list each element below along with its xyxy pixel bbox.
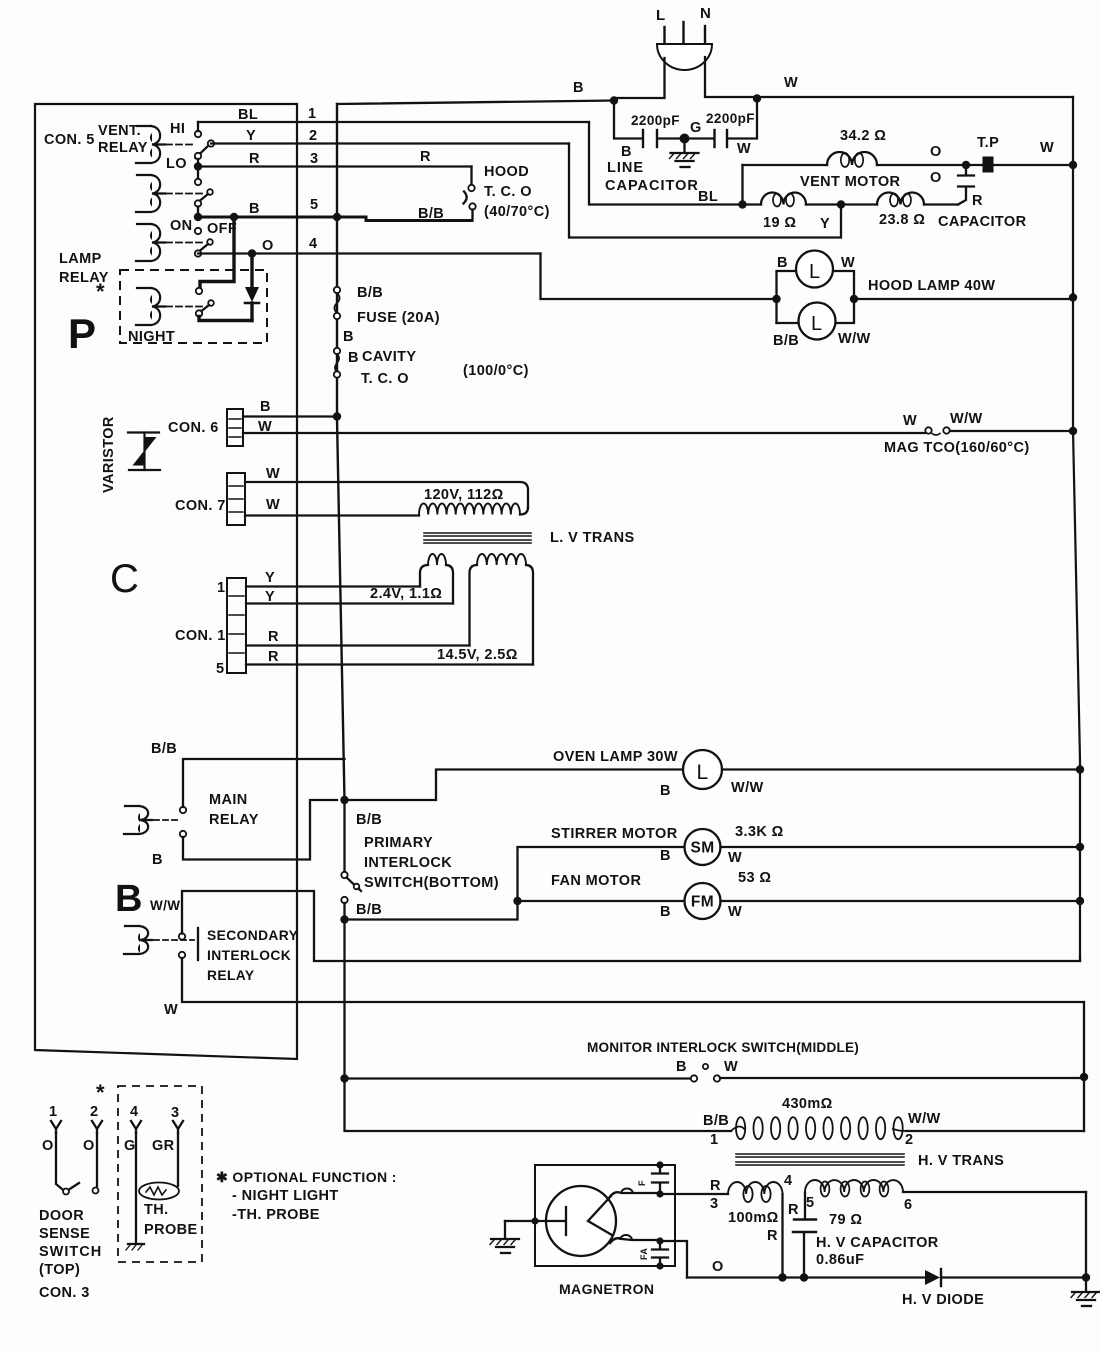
vent motor lower branch wire <box>743 203 959 205</box>
label 0.86uF <box>816 1252 864 1268</box>
svg-text:*: * <box>96 1080 105 1105</box>
svg-text:B: B <box>348 350 359 366</box>
svg-text:4: 4 <box>130 1104 138 1120</box>
HV primary 430m <box>731 1117 906 1139</box>
wire sw2 to B node <box>197 207 199 218</box>
svg-text:PROBE: PROBE <box>144 1222 198 1238</box>
label MAGNETRON <box>559 1281 654 1297</box>
svg-text:- NIGHT LIGHT: - NIGHT LIGHT <box>232 1188 339 1204</box>
label 120V 112 <box>424 487 504 503</box>
svg-text:W: W <box>266 497 280 513</box>
label W/W secondary <box>150 898 180 913</box>
label W/W oven <box>731 780 764 796</box>
label VENT. RELAY <box>98 123 148 156</box>
wire cap right up <box>728 100 757 139</box>
contact pivot LO <box>166 153 201 172</box>
svg-text:VENT MOTOR: VENT MOTOR <box>800 174 901 190</box>
vent motor node left <box>738 200 746 208</box>
magnetron filament top <box>609 1189 660 1199</box>
wire CON1 Y1 <box>246 570 420 587</box>
node CON6 B at bus <box>333 412 341 420</box>
svg-text:SECONDARY: SECONDARY <box>207 928 298 943</box>
wire 430m right <box>906 1130 1084 1132</box>
wire plug right to W node <box>705 57 757 97</box>
wire pivot to R node <box>197 159 199 163</box>
svg-text:W: W <box>258 419 272 435</box>
node monitor right <box>1080 1073 1088 1081</box>
wire secondary top W/W <box>182 891 1080 961</box>
svg-text:R: R <box>268 649 279 665</box>
svg-text:Y: Y <box>246 128 256 144</box>
varistor symbol <box>128 433 160 471</box>
wire W to right bus <box>757 96 1073 98</box>
magnetron tube <box>546 1186 616 1256</box>
svg-text:CAVITY: CAVITY <box>362 349 417 365</box>
stirrer motor SM <box>685 829 721 865</box>
secondary relay coil <box>124 926 152 954</box>
svg-text:B: B <box>777 255 788 271</box>
wire line3 R <box>198 151 472 167</box>
svg-text:2: 2 <box>90 1104 98 1120</box>
label FAN MOTOR <box>551 873 641 889</box>
svg-text:W/W: W/W <box>150 898 180 913</box>
hood lamp L1 <box>796 251 833 288</box>
blade sw2 <box>200 189 213 201</box>
svg-text:SENSE: SENSE <box>39 1226 90 1242</box>
label HOOD LAMP 40W <box>868 278 995 294</box>
svg-text:GR: GR <box>152 1138 175 1154</box>
svg-text:W/W: W/W <box>908 1111 941 1127</box>
svg-text:HI: HI <box>170 121 185 137</box>
node stirrer bus <box>1076 843 1084 851</box>
node TP junction <box>962 161 970 169</box>
LV secondary 14.5V <box>470 554 534 665</box>
svg-text:FUSE (20A): FUSE (20A) <box>357 310 440 326</box>
wire R node down <box>197 167 199 180</box>
HV trans core <box>736 1154 904 1165</box>
label DOOR SENSE SWITCH <box>39 1208 102 1278</box>
label W top <box>784 75 798 91</box>
wire oven lamp right <box>722 768 1080 770</box>
night switch bottom contact <box>196 310 202 316</box>
label MONITOR INTERLOCK SWITCH <box>587 1040 859 1055</box>
node fan tee <box>513 897 521 905</box>
connector CON.6 <box>168 409 243 446</box>
magnetron filter box <box>535 1165 675 1266</box>
TH probe dashed box <box>118 1086 202 1262</box>
svg-text:R: R <box>710 1178 721 1194</box>
label ON <box>170 218 193 234</box>
label LINE CAPACITOR <box>605 160 699 194</box>
svg-text:1: 1 <box>710 1132 718 1148</box>
label STIRRER MOTOR <box>551 826 678 842</box>
primary interlock switch <box>341 800 361 920</box>
wire CON7 W bottom <box>245 497 419 516</box>
wire Y feeder <box>569 144 841 238</box>
main relay coil <box>124 806 152 834</box>
svg-text:3.3K Ω: 3.3K Ω <box>735 824 784 840</box>
HV capacitor <box>793 1220 816 1278</box>
svg-text:VENT.: VENT. <box>98 123 141 139</box>
svg-text:4: 4 <box>784 1173 792 1189</box>
ground TH probe <box>126 1244 144 1250</box>
svg-text:14.5V, 2.5Ω: 14.5V, 2.5Ω <box>437 647 518 663</box>
svg-text:W: W <box>728 850 742 866</box>
label R hood <box>420 149 431 165</box>
night dashed box <box>120 270 267 343</box>
node primary interlock bottom <box>340 915 348 923</box>
svg-text:INTERLOCK: INTERLOCK <box>364 855 452 871</box>
svg-text:O: O <box>712 1259 724 1275</box>
door pins labels <box>49 1104 179 1121</box>
svg-text:(100/0°C): (100/0°C) <box>463 363 529 379</box>
ground HV right <box>1071 1279 1100 1306</box>
vent motor winding 19 <box>761 193 806 207</box>
svg-text:B: B <box>660 904 671 920</box>
label B oven <box>660 783 671 799</box>
node HV right <box>1082 1273 1090 1281</box>
wire O feeder to hood lamp <box>541 254 777 300</box>
HV secondary winding 79 <box>805 1180 1086 1218</box>
wire line1 BL <box>198 106 589 123</box>
svg-text:NIGHT: NIGHT <box>128 329 175 345</box>
svg-text:L: L <box>811 313 823 335</box>
svg-text:2: 2 <box>905 1132 913 1148</box>
wire HV output <box>687 1276 1086 1278</box>
label R 3 <box>710 1178 721 1212</box>
svg-text:BL: BL <box>238 107 258 123</box>
wire mag tco right <box>950 430 1073 432</box>
svg-text:B: B <box>249 201 260 217</box>
svg-text:G: G <box>124 1138 136 1154</box>
svg-text:B: B <box>343 329 354 345</box>
svg-text:R: R <box>268 629 279 645</box>
svg-text:2: 2 <box>309 128 317 144</box>
big letter P <box>68 310 96 357</box>
fuse F1 20A <box>334 287 340 319</box>
svg-text:120V, 112Ω: 120V, 112Ω <box>424 487 504 503</box>
svg-text:W: W <box>737 141 751 157</box>
label R cap <box>788 1202 799 1218</box>
svg-text:B: B <box>660 783 671 799</box>
secondary relay contacts <box>179 928 198 960</box>
svg-text:53 Ω: 53 Ω <box>738 870 771 886</box>
label B main relay <box>152 852 163 868</box>
label B hood lamp <box>777 255 788 271</box>
svg-text:B/B: B/B <box>356 812 382 828</box>
wire line5 B <box>201 197 472 221</box>
svg-text:3: 3 <box>171 1105 179 1121</box>
HV diode <box>925 1269 941 1286</box>
label W vent <box>1040 140 1054 156</box>
HV filament winding 100m <box>728 1182 783 1278</box>
svg-text:23.8 Ω: 23.8 Ω <box>879 212 925 228</box>
svg-text:HOOD: HOOD <box>484 164 529 180</box>
svg-text:LO: LO <box>166 156 187 172</box>
wire hood lamp to bus <box>854 298 1073 300</box>
svg-text:RELAY: RELAY <box>209 812 259 828</box>
svg-text:R: R <box>420 149 431 165</box>
wire B node down <box>614 101 642 139</box>
svg-text:O: O <box>42 1138 54 1154</box>
wire B/B vertical lower <box>345 920 732 1132</box>
label O lower <box>930 170 942 186</box>
lamp relay coil K3 <box>136 224 165 261</box>
wire right bus <box>1073 97 1080 957</box>
vent motor winding 34.2 <box>827 152 877 167</box>
label B/B fuse <box>357 285 383 301</box>
label R vent <box>972 193 983 209</box>
svg-text:CON. 3: CON. 3 <box>39 1285 90 1301</box>
magnetron ground wire <box>505 1217 546 1224</box>
label B/B primary2 <box>356 902 382 918</box>
connector CON.1 <box>175 578 246 677</box>
label CON. 3 <box>39 1285 90 1301</box>
label 3.3K <box>735 824 784 840</box>
big letter B <box>115 878 143 920</box>
svg-text:-TH. PROBE: -TH. PROBE <box>232 1207 320 1223</box>
svg-text:B: B <box>152 852 163 868</box>
night switch top contact <box>196 288 202 294</box>
label 14.5V <box>437 647 518 663</box>
wire G to cap right <box>685 137 714 139</box>
svg-text:3: 3 <box>310 151 318 167</box>
svg-text:W: W <box>1040 140 1054 156</box>
svg-text:RELAY: RELAY <box>98 140 148 156</box>
node Y vent <box>837 200 845 208</box>
wire fan feeder <box>518 900 686 902</box>
label CON. 5 <box>44 132 95 148</box>
label 2.4V <box>370 586 442 602</box>
node filament top <box>656 1190 663 1197</box>
door pin forks <box>51 1121 183 1133</box>
hood lamp right node <box>850 295 858 303</box>
door switch <box>56 1133 99 1195</box>
svg-text:B/B: B/B <box>151 741 177 757</box>
wire right bus bottom corner <box>1079 957 1081 961</box>
svg-text:6: 6 <box>904 1197 912 1213</box>
label OPTIONAL FUNCTION <box>216 1169 397 1185</box>
svg-text:B: B <box>115 878 143 920</box>
label L. V TRANS <box>550 530 635 546</box>
ground center <box>670 140 699 167</box>
hood lamp loop <box>777 271 855 323</box>
line capacitor right plates <box>715 130 728 147</box>
wire filament bottom out <box>660 1241 687 1278</box>
wire cap left to G <box>658 137 685 139</box>
svg-text:T.P: T.P <box>977 135 999 151</box>
svg-text:R: R <box>767 1228 778 1244</box>
wire CON1 R2 <box>246 649 533 665</box>
svg-text:MAG TCO(160/60°C): MAG TCO(160/60°C) <box>884 440 1030 456</box>
wire interlock to motors <box>345 847 686 920</box>
link dashes K1 <box>166 144 194 146</box>
label W/W hood lamp <box>838 331 871 347</box>
svg-text:W: W <box>903 413 917 429</box>
wire main relay bottom <box>183 800 337 860</box>
label B/B hood <box>418 206 444 222</box>
label 2200pF left <box>631 113 680 128</box>
label 2200pF right <box>706 111 755 126</box>
svg-text:O: O <box>930 170 942 186</box>
svg-text:L: L <box>809 261 821 283</box>
svg-text:B/B: B/B <box>418 206 444 222</box>
svg-text:G: G <box>690 120 702 136</box>
svg-text:DOOR: DOOR <box>39 1208 84 1224</box>
label B/B main relay <box>151 741 177 757</box>
plug prongs <box>665 22 706 44</box>
svg-text:P: P <box>68 310 96 357</box>
svg-text:Y: Y <box>265 570 275 586</box>
svg-text:LAMP: LAMP <box>59 251 102 267</box>
hood TCO switch <box>464 167 476 221</box>
svg-text:2200pF: 2200pF <box>706 111 755 126</box>
LV trans core <box>424 533 531 543</box>
svg-text:Y: Y <box>820 216 830 232</box>
vent motor winding 23.8 <box>877 193 924 207</box>
node monitor left <box>340 1074 348 1082</box>
svg-text:B: B <box>621 144 632 160</box>
svg-text:R: R <box>788 1202 799 1218</box>
wire B node to bus top <box>337 101 614 105</box>
label O hv <box>712 1259 724 1275</box>
label FUSE (20A) <box>357 310 440 326</box>
node HV cap bottom <box>800 1273 808 1281</box>
svg-text:2.4V, 1.1Ω: 2.4V, 1.1Ω <box>370 586 442 602</box>
svg-text:CON. 5: CON. 5 <box>44 132 95 148</box>
label W monitor <box>724 1059 738 1075</box>
svg-text:(40/70°C): (40/70°C) <box>484 204 550 220</box>
svg-text:1: 1 <box>49 1104 57 1120</box>
svg-text:B: B <box>573 80 584 96</box>
svg-text:CON. 6: CON. 6 <box>168 420 219 436</box>
wire line4 O <box>198 236 541 254</box>
svg-text:CAPACITOR: CAPACITOR <box>605 178 699 194</box>
svg-text:H. V DIODE: H. V DIODE <box>902 1292 984 1308</box>
node 4 bottom <box>778 1273 786 1281</box>
label VENT MOTOR <box>800 174 901 190</box>
main relay contacts <box>180 807 186 837</box>
label LAMP RELAY <box>59 251 109 286</box>
svg-text:W: W <box>724 1059 738 1075</box>
wire BL feeder <box>589 122 740 205</box>
svg-text:5: 5 <box>806 1195 814 1211</box>
node vent right <box>1069 161 1077 169</box>
node hood lamp bus <box>1069 293 1077 301</box>
node line4 O <box>248 249 256 257</box>
label O upper <box>930 144 942 160</box>
contact HI <box>170 121 201 137</box>
svg-text:5: 5 <box>216 661 224 677</box>
svg-text:*: * <box>96 279 105 304</box>
node filament bottom <box>656 1237 663 1244</box>
label R mid <box>767 1228 778 1244</box>
label star door <box>96 1080 105 1105</box>
svg-text:CON. 7: CON. 7 <box>175 498 226 514</box>
svg-text:BL: BL <box>698 189 718 205</box>
svg-text:SWITCH(BOTTOM): SWITCH(BOTTOM) <box>364 875 499 891</box>
LV primary winding 120V <box>419 503 528 514</box>
label B under left cap <box>621 144 632 160</box>
svg-text:100mΩ: 100mΩ <box>728 1210 779 1226</box>
svg-text:L. V TRANS: L. V TRANS <box>550 530 635 546</box>
svg-text:B/B: B/B <box>703 1113 729 1129</box>
contact sw2 top <box>195 179 201 185</box>
svg-text:PRIMARY: PRIMARY <box>364 835 433 851</box>
label W/W hv <box>905 1111 941 1148</box>
svg-text:TH.: TH. <box>144 1202 169 1218</box>
connector CON.7 <box>175 473 245 525</box>
label 100m <box>728 1210 779 1226</box>
node oven lamp bus <box>1076 765 1084 773</box>
secondary relay link dashes <box>154 939 194 941</box>
wire plug left to B node <box>614 58 665 98</box>
vent motor left vertical <box>741 165 743 205</box>
monitor interlock switch <box>345 1064 1085 1082</box>
magnetron cathode <box>546 1207 566 1235</box>
label 53 ohm <box>738 870 771 886</box>
wire line2 Y <box>211 128 569 144</box>
node line5 heavy <box>230 213 238 221</box>
vent relay coil K1 <box>136 126 165 163</box>
label NIGHT <box>128 329 175 345</box>
label B below fuse <box>343 329 354 345</box>
label B stirrer <box>660 848 671 864</box>
diode D1 night <box>245 254 259 321</box>
svg-text:4: 4 <box>309 236 317 252</box>
svg-text:Y: Y <box>265 589 275 605</box>
svg-text:INTERLOCK: INTERLOCK <box>207 948 291 963</box>
svg-text:W: W <box>164 1002 178 1018</box>
label W under right cap <box>737 141 751 157</box>
label B plug <box>573 80 584 96</box>
link dashes K4 <box>166 306 203 308</box>
label W/W mag <box>950 411 983 427</box>
feedthrough cap top <box>652 1161 668 1194</box>
wire CON6 W / mag tco wire <box>243 419 925 435</box>
svg-text:MONITOR INTERLOCK SWITCH(MIDDL: MONITOR INTERLOCK SWITCH(MIDDLE) <box>587 1040 859 1055</box>
label 23.8 ohm <box>879 212 925 228</box>
svg-text:19 Ω: 19 Ω <box>763 215 796 231</box>
label PRIMARY INTERLOCK SWITCH <box>364 835 499 891</box>
svg-text:W: W <box>728 904 742 920</box>
wire CON6 B <box>243 399 337 417</box>
label 5 <box>806 1195 814 1211</box>
label cavity <box>348 349 529 387</box>
label FA bottom <box>639 1248 649 1260</box>
svg-text:W/W: W/W <box>731 780 764 796</box>
svg-text:R: R <box>249 151 260 167</box>
label H. V CAPACITOR <box>816 1235 939 1251</box>
blade sw3 <box>200 239 213 251</box>
svg-text:L: L <box>656 7 666 24</box>
label MAG TCO <box>884 440 1030 456</box>
fan motor FM <box>685 883 721 919</box>
node box bottom <box>656 1262 663 1269</box>
svg-text:O: O <box>262 238 274 254</box>
node mag tco bus <box>1069 427 1077 435</box>
svg-text:HOOD LAMP 40W: HOOD LAMP 40W <box>868 278 995 294</box>
node B line5 <box>194 213 202 221</box>
svg-text:W: W <box>266 466 280 482</box>
svg-text:430mΩ: 430mΩ <box>782 1096 833 1112</box>
svg-text:OVEN LAMP 30W: OVEN LAMP 30W <box>553 749 678 765</box>
ground magnetron <box>490 1221 519 1253</box>
svg-text:0.86uF: 0.86uF <box>816 1252 864 1268</box>
svg-text:W: W <box>841 255 855 271</box>
label F top <box>637 1180 647 1186</box>
node R line3 <box>194 162 202 170</box>
